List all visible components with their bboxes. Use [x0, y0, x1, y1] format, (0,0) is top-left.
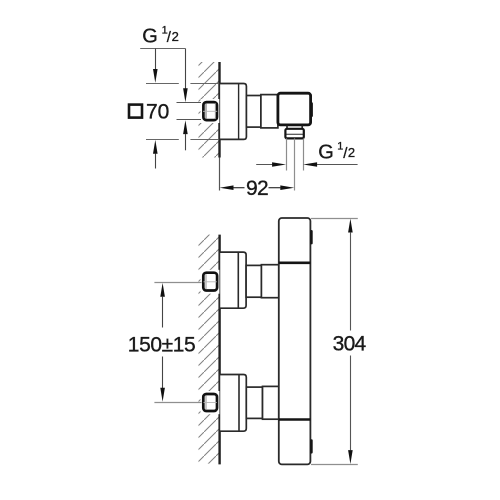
- dim 304 bottom extension: [311, 464, 358, 466]
- lower flange face line: [238, 375, 240, 431]
- flange (escutcheon, top view): [219, 84, 246, 140]
- lower union nut (lower view): [201, 391, 220, 414]
- dim 92 line left arrow: [220, 185, 234, 190]
- lower union centerline: [154, 402, 201, 404]
- upper flange (lower view): [219, 252, 246, 308]
- dim G12 outlet right arrow: [303, 162, 317, 167]
- wall hatch (lower view): [199, 235, 220, 464]
- dim 92 wall extension: [219, 158, 221, 191]
- valve body tube section A (top view): [246, 96, 261, 128]
- svg-text:70: 70: [146, 101, 169, 124]
- lower pipe section B: [263, 386, 279, 419]
- flange bottom extension line: [146, 139, 179, 141]
- thermostat body (lower view): [279, 218, 311, 464]
- upper pipe section A: [246, 265, 261, 297]
- dim G12 leg arrow (to nut thread): [185, 49, 187, 89]
- dim 150 lower arrow: [162, 357, 164, 389]
- dim 92 line right arrow: [269, 187, 281, 189]
- dim G12 lower arrow: [183, 120, 188, 134]
- outlet thread lines (top view): [286, 138, 288, 170]
- flange face line (top view): [238, 84, 240, 139]
- svg-text:92: 92: [246, 177, 268, 200]
- thread extension lines (top view nut): [177, 102, 202, 104]
- label shelf line: [140, 48, 185, 50]
- upper pipe section B: [261, 265, 278, 298]
- outlet centerline: [294, 138, 296, 190]
- flange top extension line: [146, 83, 179, 85]
- outlet collar groove: [286, 133, 303, 135]
- dim 70 top arrow: [155, 49, 157, 71]
- lower pipe section A: [246, 387, 262, 418]
- svg-text:G: G: [318, 142, 334, 164]
- lower button tick: [310, 439, 313, 453]
- upper button tick: [310, 230, 313, 244]
- valve body tube section B (top view): [261, 95, 278, 128]
- dim 304 top extension: [311, 218, 358, 220]
- svg-text:304: 304: [333, 333, 367, 356]
- upper union nut (lower view): [201, 270, 220, 294]
- label square70 symbol: [129, 105, 142, 118]
- body bottom separator: [279, 418, 311, 421]
- outlet neck (top view): [286, 126, 288, 129]
- nut inner line (top view): [205, 103, 207, 119]
- svg-text:2: 2: [348, 145, 355, 160]
- wall hatch (top view): [199, 62, 220, 158]
- dim 70 bottom arrow: [153, 140, 158, 154]
- svg-text:2: 2: [172, 29, 179, 44]
- square knob (top view): [278, 93, 311, 125]
- knob side tab (top view): [310, 102, 313, 117]
- svg-text:150±15: 150±15: [128, 334, 196, 357]
- upper flange face line: [237, 253, 239, 308]
- svg-text:G: G: [142, 26, 158, 48]
- dim 150 upper arrow: [160, 283, 165, 297]
- dim 304 upper arrow: [348, 219, 353, 233]
- wall face line (top view): [218, 62, 220, 158]
- upper union nut inner lines: [205, 274, 207, 289]
- upper union centerline: [154, 282, 201, 284]
- lower flange (lower view): [219, 375, 246, 432]
- dim G12 outlet left arrow: [256, 164, 272, 166]
- body top separator: [279, 261, 311, 264]
- dim 304 lower arrow: [350, 356, 352, 451]
- wall face line (lower view): [218, 235, 220, 465]
- outlet collar (top view): [285, 129, 303, 139]
- wall union nut (top view): [201, 99, 220, 123]
- lower union nut inner lines: [205, 395, 207, 410]
